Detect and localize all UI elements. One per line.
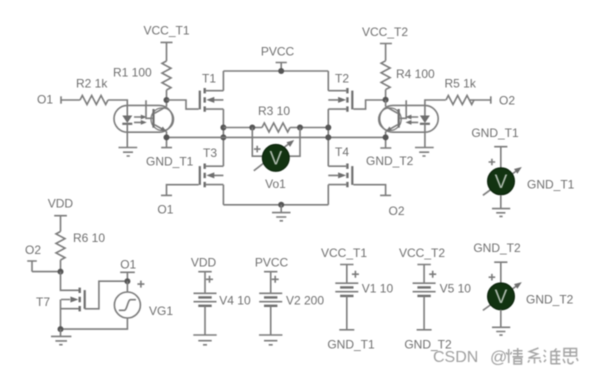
node O1 (above VG1) xyxy=(120,257,136,284)
svg-text:@: @ xyxy=(490,348,507,367)
VCC_T2 power symbol xyxy=(362,25,408,61)
node O1 (T3 gate terminal) xyxy=(157,195,173,216)
resistor R3 10 xyxy=(258,104,290,132)
ground (U3) xyxy=(492,195,510,216)
net GND_T2 tie (under U2 emitter) xyxy=(366,134,414,167)
wire T7 drain xyxy=(61,272,79,291)
wire T1 source column down xyxy=(222,109,224,166)
wire top rail xyxy=(223,70,328,72)
wire T3 gate to O1 xyxy=(167,185,199,196)
node Vo1 minus tap xyxy=(297,125,303,131)
wire R5 to O2 xyxy=(470,99,491,101)
ground (bridge bottom) xyxy=(272,202,291,221)
node T1 source / R3 left xyxy=(220,125,226,141)
resistor R5 1k xyxy=(445,77,477,105)
wire R3 row xyxy=(223,127,328,129)
wire R1 to node xyxy=(166,90,168,100)
node junction R1/collector/T1-gate xyxy=(164,97,170,103)
wire T1 drain to rail xyxy=(222,71,224,91)
wire R2 to optocoupler LED anode xyxy=(108,100,127,116)
node Vo1 plus tap xyxy=(249,125,255,131)
wire R4 to node xyxy=(383,90,389,103)
optocoupler U1 phototransistor xyxy=(146,100,174,137)
ground (U4) xyxy=(492,310,510,336)
PVCC power symbol xyxy=(261,45,295,74)
svg-text:CSDN: CSDN xyxy=(433,349,478,366)
transistor T2 (NMOS mirrored) xyxy=(328,71,352,111)
transistor T4 (NMOS mirrored) xyxy=(328,145,352,187)
net GND_T2 tie (voltmeter U4 top) xyxy=(473,241,521,284)
ground (LED U2 cathode) xyxy=(415,148,434,157)
resistor R1 100 xyxy=(113,61,171,90)
battery V1 10 xyxy=(321,246,393,330)
VDD power symbol xyxy=(48,197,74,232)
wire O2 to R6 node xyxy=(32,269,64,275)
optocoupler U1 body xyxy=(114,105,173,132)
voltmeter U3 GND_T1 xyxy=(483,159,575,196)
wire T2 drain to rail xyxy=(327,71,329,91)
resistor R6 10 xyxy=(56,231,105,260)
battery V4 10 xyxy=(191,256,251,335)
wire T7 source to ground node xyxy=(60,300,62,330)
wire Vo1 leads xyxy=(252,128,300,157)
ground (V4) xyxy=(193,335,216,345)
ground (LED U1 cathode) xyxy=(119,148,138,157)
wire T7 gate to VG1 xyxy=(85,281,128,309)
wire VG1 bottom to ground xyxy=(58,318,128,332)
optocoupler U2 body xyxy=(380,105,439,132)
wire R6 to node xyxy=(60,260,62,272)
wire T4 gate to O2 xyxy=(353,185,385,196)
net GND_T2 tie (V5 bottom) xyxy=(404,330,452,352)
battery V5 10 xyxy=(399,246,471,330)
wire T4 source down xyxy=(327,185,329,205)
wire T2 gate xyxy=(353,100,385,109)
optocoupler U1 light arrows xyxy=(134,115,147,125)
VCC_T1 power symbol xyxy=(143,24,189,61)
battery V2 200 xyxy=(255,256,325,335)
net GND_T1 tie (V1 bottom) xyxy=(327,330,375,352)
net GND_T1 tie (voltmeter U3 top) xyxy=(471,126,519,169)
wire T3 source down xyxy=(222,185,224,205)
ground (T7/VG1) xyxy=(51,329,71,345)
transistor T7 (NMOS mirrored) xyxy=(36,288,85,312)
node O2 (right output) xyxy=(491,94,516,108)
voltmeter U4 GND_T2 xyxy=(483,274,574,311)
voltmeter Vo1 xyxy=(254,140,294,191)
node O2 (T4 gate terminal) xyxy=(380,195,405,217)
node O1 (left input) xyxy=(37,93,61,107)
wire emitter row (GND_T1 net to GND_T2 net) xyxy=(164,134,386,140)
wire T1 gate xyxy=(167,100,199,109)
wire O1 to R2 xyxy=(61,99,80,101)
optocoupler U2 light arrows xyxy=(405,115,418,125)
optocoupler U2 LED xyxy=(420,100,446,148)
optocoupler U2 phototransistor xyxy=(379,100,407,138)
optocoupler U1 LED xyxy=(122,116,132,148)
ground (V2) xyxy=(259,335,282,345)
wire bottom rail xyxy=(223,204,328,206)
transistor T1 (NMOS) xyxy=(200,71,224,111)
wire T2 source column down xyxy=(327,109,329,166)
net GND_T1 tie (under U1 emitter) xyxy=(146,137,194,168)
source VG1 xyxy=(114,281,173,318)
transistor T3 (NMOS) xyxy=(200,146,224,187)
resistor R4 100 xyxy=(381,61,435,90)
node O2 (bottom left terminal) xyxy=(25,243,41,272)
resistor R2 1k xyxy=(76,77,108,105)
node T2 source / R3 right xyxy=(325,125,331,141)
